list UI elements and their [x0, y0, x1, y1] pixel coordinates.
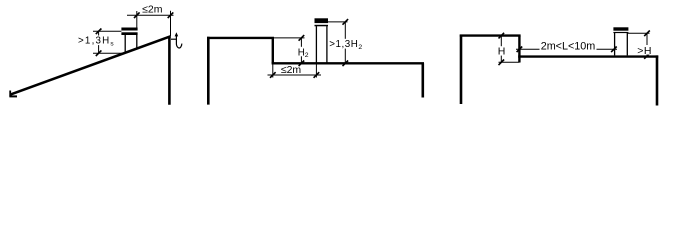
svg-text:>H: >H	[637, 45, 652, 57]
svg-text:≤2m: ≤2m	[281, 64, 302, 76]
svg-text:≤2m: ≤2m	[142, 3, 163, 15]
svg-text:2m<L<10m: 2m<L<10m	[541, 41, 596, 53]
svg-text:H: H	[498, 46, 506, 58]
svg-text:>1,3Hs: >1,3Hs	[78, 36, 115, 48]
svg-text:>1,3H2: >1,3H2	[329, 39, 363, 51]
